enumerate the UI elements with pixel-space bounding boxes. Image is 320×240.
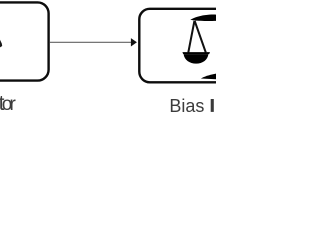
scales icon: left pan rim	[182, 52, 210, 54]
wire: connector arrow shaft	[50, 41, 132, 43]
arrowhead	[131, 38, 137, 46]
node box: left process box (cut off at left edge)	[0, 2, 49, 80]
scales icon: base foot (cut off at right)	[201, 74, 216, 80]
icon fragment inside left box (cut off)	[0, 40, 2, 48]
svg-text:Bias: Bias	[169, 96, 204, 116]
scales icon: beam (cut off at right)	[190, 15, 216, 21]
scales icon: left pan strings	[188, 21, 206, 53]
node box: right process box (cut off at right edge)	[139, 9, 259, 83]
svg-text:r: r	[10, 94, 17, 115]
scales icon: left pan bowl	[184, 54, 209, 64]
